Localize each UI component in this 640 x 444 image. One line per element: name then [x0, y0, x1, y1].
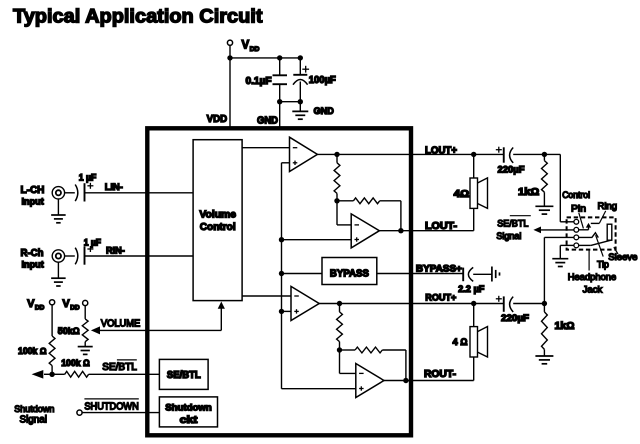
svg-text:Signal: Signal: [20, 415, 48, 426]
junction: [337, 301, 342, 306]
svg-text:Input: Input: [22, 259, 45, 270]
ground jack: [552, 259, 568, 267]
wire amp4 -: [340, 372, 356, 374]
IC package outline U1: [147, 128, 411, 435]
ground L input: [51, 215, 66, 223]
svg-text:VDD: VDD: [207, 114, 228, 125]
svg-text:4Ω: 4Ω: [454, 189, 470, 200]
op-amp A2: [351, 214, 379, 248]
wire SE/BTL: [89, 373, 160, 375]
svg-text:Headphone: Headphone: [568, 272, 616, 283]
junction: [403, 378, 408, 383]
wire: [382, 349, 406, 351]
wire VC out L to amp1 -: [242, 147, 289, 149]
svg-text:1kΩ: 1kΩ: [555, 321, 575, 332]
svg-text:DD: DD: [35, 305, 45, 312]
jack tip contact lever: [579, 233, 599, 238]
svg-text:220µF: 220µF: [501, 313, 529, 324]
resistor 1k L: [542, 161, 548, 193]
wire RIN-: [85, 255, 194, 257]
wire: [339, 342, 341, 350]
wire: [52, 373, 65, 375]
svg-text:LIN-: LIN-: [105, 182, 123, 193]
svg-text:ROUT-: ROUT-: [424, 369, 456, 380]
svg-text:Control: Control: [562, 190, 590, 200]
BYPASS block: [322, 258, 377, 285]
wire jack sleeve to ground: [560, 244, 574, 246]
svg-text:LOUT-: LOUT-: [425, 221, 457, 232]
wire: [229, 45, 231, 58]
speaker 4ohm L: [470, 178, 488, 209]
capacitor 220uF R: [504, 296, 513, 312]
terminal V_DD pot1: [50, 300, 55, 305]
resistor 100k pullup: [49, 336, 55, 366]
junction: [279, 237, 284, 242]
wire LIN-: [85, 192, 194, 194]
svg-text:GND: GND: [257, 115, 278, 126]
capacitor 2.2uF: [463, 267, 473, 281]
wire amp3 +: [282, 310, 292, 312]
wire: [513, 153, 560, 155]
net label SHUTDOWN with overline: [84, 399, 138, 413]
potentiometer 50k: [82, 319, 88, 342]
svg-text:SE/BTL: SE/BTL: [102, 362, 137, 373]
svg-text:BYPASS: BYPASS: [330, 268, 370, 279]
wire: [543, 237, 545, 303]
shutdown ckt block: [159, 397, 217, 427]
wire: [543, 192, 545, 206]
svg-text:R-Ch: R-Ch: [21, 248, 44, 259]
wire: [473, 273, 492, 275]
capacitor 0.1uF: [273, 58, 288, 102]
polarity + 1uF R: [87, 246, 93, 252]
junction: [277, 55, 282, 60]
wire: [380, 200, 401, 202]
wire: [51, 366, 53, 375]
headphone jack dashed outline: [567, 217, 616, 249]
wire SHUTDOWN: [82, 412, 159, 414]
wire: [543, 154, 545, 160]
jack contact 1: [574, 219, 579, 224]
polarity + 220uF R: [496, 296, 502, 302]
svg-text:GND: GND: [314, 106, 334, 117]
junction: [298, 55, 303, 60]
wire VDD pin: [229, 58, 231, 131]
resistor feedback A3: [337, 312, 343, 342]
wire amp2 +: [282, 239, 352, 241]
wire bypass rail: [281, 163, 283, 389]
callout line Pin: [579, 213, 584, 229]
volume control block: [193, 140, 242, 301]
svg-text:Pin: Pin: [571, 203, 586, 214]
svg-text:0.1µF: 0.1µF: [246, 76, 272, 87]
svg-text:Shutdown: Shutdown: [165, 403, 212, 414]
callout line Tip: [596, 235, 604, 256]
wire: [230, 57, 300, 59]
capacitor 1uF R input: [75, 246, 84, 264]
svg-text:1kΩ: 1kΩ: [518, 187, 540, 198]
svg-text:SE/BTL: SE/BTL: [497, 218, 528, 228]
wire: [543, 349, 545, 355]
arrow volume wiper: [91, 326, 221, 334]
arrow SE/BTL signal: [533, 227, 574, 234]
svg-text:V: V: [62, 298, 70, 310]
svg-text:Shutdown: Shutdown: [14, 403, 54, 414]
junction: [279, 271, 284, 276]
wire: [559, 245, 561, 258]
callout line Sleeve: [614, 247, 618, 254]
svg-text:Signal: Signal: [496, 231, 521, 241]
terminal V_DD pot2: [83, 300, 88, 305]
wire: [513, 303, 544, 305]
SE/BTL block: [159, 359, 208, 389]
terminal shutdown: [77, 410, 82, 415]
svg-text:100µF: 100µF: [309, 75, 336, 86]
junction: [334, 152, 339, 157]
wire: [543, 304, 545, 312]
capacitor 220uF L: [504, 147, 513, 163]
wire: [340, 349, 356, 351]
jack sleeve lever: [579, 240, 612, 246]
svg-text:V: V: [27, 298, 35, 310]
svg-text:ckt: ckt: [180, 415, 199, 426]
junction: [398, 228, 403, 233]
capacitor 100uF electrolytic: [293, 58, 308, 102]
op-amp A1: [290, 137, 318, 171]
svg-text:50kΩ: 50kΩ: [58, 326, 80, 336]
wire VC out R to amp3 -: [242, 295, 291, 297]
speaker 4ohm R: [470, 327, 488, 358]
wire to ground: [57, 262, 59, 278]
ground R input: [51, 278, 66, 286]
junction: [542, 152, 547, 157]
wire: [400, 201, 402, 231]
jack control lever with up arrow: [579, 223, 592, 230]
resistor 1k R: [542, 312, 548, 350]
wire: [65, 255, 75, 257]
wire: [473, 154, 475, 178]
wire: [51, 305, 53, 336]
svg-text:Jack: Jack: [583, 284, 603, 295]
junction: [334, 198, 339, 203]
wire: [339, 304, 341, 312]
svg-text:Input: Input: [22, 196, 45, 207]
svg-text:BYPASS+: BYPASS+: [416, 263, 462, 274]
ground 1k R: [535, 356, 553, 364]
jack contact 2 control pin: [574, 227, 579, 232]
svg-text:Tip: Tip: [597, 260, 609, 270]
terminal V_DD supply: [227, 40, 232, 45]
svg-text:2.2 µF: 2.2 µF: [458, 284, 484, 295]
RCA connector R: [52, 250, 64, 262]
arrow pot wiper left: [32, 370, 52, 379]
svg-text:1 µF: 1 µF: [79, 172, 97, 182]
net label SE/BTL signal with overline: [496, 216, 530, 241]
wire BYPASS out: [377, 273, 463, 275]
junction: [279, 309, 284, 314]
wire: [473, 357, 475, 381]
wire to jack tip: [559, 154, 561, 221]
svg-text:220µF: 220µF: [498, 164, 525, 175]
svg-text:100k Ω: 100k Ω: [61, 358, 90, 368]
resistor feedback A2: [353, 198, 379, 204]
svg-text:Typical Application Circuit: Typical Application Circuit: [13, 7, 263, 28]
wire to ground: [299, 102, 301, 112]
resistor 100k series: [65, 371, 89, 377]
svg-text:ROUT+: ROUT+: [425, 292, 456, 303]
wire: [473, 304, 475, 327]
wire: [339, 350, 341, 373]
svg-text:DD: DD: [250, 46, 260, 53]
ground 1k L: [535, 206, 553, 214]
wire: [84, 342, 86, 347]
svg-text:1 µF: 1 µF: [84, 237, 102, 247]
wire: [65, 192, 75, 194]
wire LOUT-: [379, 230, 473, 232]
wire: [337, 200, 353, 202]
wire: [336, 193, 338, 200]
wire ROUT-: [384, 380, 474, 382]
jack contact 3: [574, 235, 579, 240]
callout line Ring: [599, 211, 605, 224]
wire amp1 out: [317, 153, 337, 155]
ground pot: [78, 347, 93, 355]
wire amp4 +: [282, 388, 356, 390]
junction: [227, 55, 232, 60]
svg-text:RIN-: RIN-: [106, 246, 125, 257]
wire: [473, 208, 475, 230]
svg-text:4 Ω: 4 Ω: [453, 337, 468, 348]
wire jack ring: [544, 236, 574, 238]
jack contact 4 sleeve: [574, 243, 579, 248]
polarity + 100uF: [302, 66, 309, 73]
junction: [337, 347, 342, 352]
wire VOLUME to block arrow up: [218, 302, 225, 331]
wire amp3 out: [319, 303, 339, 305]
RCA connector L: [52, 187, 64, 199]
jack ring contact: [591, 222, 600, 224]
polarity + 220uF L: [496, 147, 502, 153]
junction: [277, 99, 282, 104]
capacitor 1uF L input: [75, 183, 84, 201]
wire: [405, 350, 407, 381]
svg-text:SE/BTL: SE/BTL: [167, 370, 201, 381]
wire GND pin: [279, 102, 281, 131]
resistor feedback A4: [355, 347, 382, 353]
wire to ground: [57, 199, 59, 215]
junction speaker L: [471, 152, 476, 157]
svg-text:L-CH: L-CH: [21, 185, 45, 196]
svg-text:100k Ω: 100k Ω: [18, 346, 47, 356]
wire: [560, 221, 574, 223]
jack sleeve bar: [607, 224, 612, 240]
junction: [542, 301, 547, 306]
junction: [298, 99, 303, 104]
wire: [336, 154, 338, 162]
net label SE/BTL with overline: [102, 360, 137, 373]
callout line headphone jack: [588, 250, 590, 271]
svg-text:VOLUME: VOLUME: [101, 319, 141, 330]
svg-text:LOUT+: LOUT+: [425, 145, 457, 156]
wire ROUT+: [340, 303, 504, 305]
svg-text:Ring: Ring: [598, 201, 618, 212]
wire to bypass block: [282, 273, 323, 275]
wire: [336, 201, 338, 225]
op-amp A3: [291, 286, 319, 320]
wire amp2 -: [337, 224, 351, 226]
svg-text:DD: DD: [70, 305, 80, 312]
svg-text:Sleeve: Sleeve: [608, 252, 637, 263]
op-amp A4: [356, 364, 384, 398]
junction: [49, 372, 54, 377]
wire amp1 +: [282, 162, 290, 164]
wire: [84, 306, 86, 319]
wire: [280, 101, 301, 103]
junction speaker R: [471, 301, 476, 306]
polarity + 1uF L: [87, 183, 93, 189]
svg-text:Volume: Volume: [199, 209, 236, 220]
resistor feedback A1: [334, 163, 340, 194]
ground sideways 2.2uF: [492, 267, 500, 282]
ground supply: [292, 111, 308, 119]
svg-text:V: V: [242, 39, 250, 51]
wire LOUT+: [337, 153, 504, 155]
svg-text:SHUTDOWN: SHUTDOWN: [84, 402, 138, 413]
svg-text:Control: Control: [200, 222, 236, 233]
